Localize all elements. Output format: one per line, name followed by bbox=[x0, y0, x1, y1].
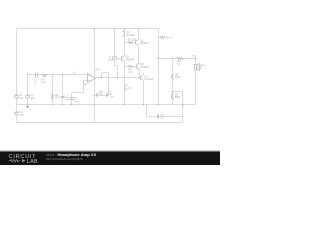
svg-text:10u: 10u bbox=[65, 98, 70, 101]
svg-text:2N3906: 2N3906 bbox=[126, 34, 135, 37]
wire C3 branch bbox=[71, 93, 73, 105]
wire right long vertical bbox=[158, 29, 160, 105]
node dot comp bbox=[93, 95, 94, 96]
svg-text:3906: 3906 bbox=[175, 76, 181, 79]
node dot bias link bbox=[171, 91, 172, 92]
wire output tap bbox=[101, 73, 103, 78]
wire input chain bbox=[28, 74, 88, 76]
wire op-amp output bbox=[96, 77, 141, 79]
svg-text:rev4 : Headphone Amp V3: rev4 : Headphone Amp V3 bbox=[46, 152, 97, 157]
node dot C2 top bbox=[62, 74, 63, 75]
node dot gnd Q7 bbox=[143, 104, 144, 105]
wire I1 top feed bbox=[114, 29, 116, 57]
resistor R9 zigzag bbox=[129, 66, 133, 68]
svg-text:http://circuitlab.com/cpqd7a: http://circuitlab.com/cpqd7a bbox=[46, 157, 83, 161]
logo opamp mark bbox=[22, 159, 25, 163]
V1 plus minus marks bbox=[16, 95, 18, 97]
op-amp OA1 bbox=[88, 74, 96, 83]
svg-text:2N3906: 2N3906 bbox=[140, 66, 149, 69]
capacitor C6 plates bbox=[106, 94, 108, 97]
wire output row bbox=[159, 58, 177, 60]
node dot gnd Vminus bbox=[93, 104, 94, 105]
wire Q2 emitter chain bbox=[138, 46, 140, 64]
node dot I1 rail bbox=[114, 28, 115, 29]
capacitor C1 plates bbox=[35, 73, 37, 78]
wire op-amp V- pin bbox=[94, 80, 96, 123]
wire middle branch bbox=[117, 66, 119, 78]
wire to op-amp minus bbox=[84, 80, 88, 82]
speaker SPK1 bbox=[195, 65, 197, 70]
wire Q3 emitter down bbox=[124, 62, 126, 105]
resistor R5 zigzag bbox=[160, 37, 165, 39]
transistor Q6 bbox=[124, 86, 126, 90]
wire V1 to gnd rail bbox=[16, 99, 18, 112]
wire R4 to out corner bbox=[184, 59, 196, 65]
svg-text:2N3904: 2N3904 bbox=[140, 42, 149, 45]
svg-text:1mA: 1mA bbox=[108, 59, 113, 62]
wire Q7 emitter to rail bbox=[143, 81, 145, 105]
node dot gnd R2 bbox=[52, 104, 53, 105]
resistor R1 zigzag bbox=[42, 75, 48, 77]
wire V3 down to ground rail bbox=[27, 99, 29, 105]
wire feedback horizontal bbox=[72, 92, 84, 94]
svg-text:10p: 10p bbox=[99, 91, 104, 94]
op-amp plus mark bbox=[16, 57, 115, 115]
node dot input bbox=[27, 74, 28, 75]
wire speaker return bbox=[195, 70, 197, 105]
capacitor C2 plates bbox=[61, 96, 65, 98]
wire ground rail bbox=[17, 104, 196, 106]
node dot output tap bbox=[101, 77, 102, 78]
voltage source V3 bbox=[26, 95, 30, 99]
wire Q2 collector bbox=[138, 29, 140, 40]
svg-text:2N3904: 2N3904 bbox=[126, 58, 135, 61]
wire R5 stub bbox=[159, 37, 160, 39]
transistor Q7 bbox=[140, 76, 142, 80]
node dot Q2 rail bbox=[138, 28, 139, 29]
transistor Q1 bbox=[124, 32, 126, 36]
wire compensation top bbox=[102, 72, 109, 74]
wire inverting input drop bbox=[83, 81, 85, 93]
node dot gnd C3 bbox=[71, 104, 72, 105]
wire C4 horizontal bbox=[147, 116, 183, 118]
svg-text:12V: 12V bbox=[19, 114, 24, 117]
transistor Q5 bbox=[136, 65, 138, 69]
voltage source V1 bbox=[15, 95, 19, 99]
node dot gnd C2 bbox=[62, 104, 63, 105]
wire op-amp V+ pin bbox=[94, 29, 96, 77]
svg-text:3904: 3904 bbox=[175, 96, 181, 99]
wire left rail lower bbox=[16, 116, 18, 123]
wire Q5 base feed bbox=[125, 66, 137, 68]
wire V3 up to input node bbox=[27, 75, 29, 95]
node dot bias top bbox=[171, 58, 172, 59]
svg-text:SIN: SIN bbox=[30, 97, 34, 100]
wire Q3 collector chain bbox=[124, 29, 126, 56]
wire Q7 collector stub bbox=[143, 73, 145, 75]
node dot R2 top bbox=[52, 74, 53, 75]
wire bottom rail bbox=[17, 122, 183, 124]
resistor R2 zigzag bbox=[52, 94, 54, 100]
svg-text:100: 100 bbox=[128, 71, 133, 74]
svg-text:12V: 12V bbox=[19, 97, 24, 100]
resistor R4 zigzag bbox=[177, 58, 184, 60]
capacitor C4 plates bbox=[157, 115, 159, 119]
voltage source V2 bbox=[15, 112, 19, 116]
svg-text:LAB: LAB bbox=[27, 159, 38, 165]
svg-text:R3 100: R3 100 bbox=[128, 39, 137, 42]
wire Q5 to output wire bbox=[139, 70, 141, 78]
node dot gnd V3 bbox=[27, 104, 28, 105]
transistor Q2 bbox=[135, 41, 137, 45]
wire left rail upper bbox=[16, 29, 18, 95]
node dot gnd Q6 bbox=[124, 104, 125, 105]
node dot Vplus rail bbox=[93, 28, 94, 29]
transistor Q3 bbox=[121, 57, 123, 61]
node dot out row bbox=[157, 58, 158, 59]
wire C2 branch bbox=[62, 75, 64, 105]
current source I1 bbox=[113, 56, 117, 60]
wire bias vertical bbox=[172, 59, 174, 105]
footer bar bbox=[0, 150, 220, 153]
I1 arrow bbox=[114, 57, 116, 60]
logo resistor squiggle bbox=[9, 159, 21, 162]
wire I1 to Q3 base bbox=[117, 58, 122, 60]
svg-text:OA1: OA1 bbox=[95, 68, 101, 71]
transistor Q8 bbox=[171, 75, 173, 79]
wire right drop bbox=[182, 92, 184, 123]
resistor R3 zigzag bbox=[129, 42, 133, 44]
node dot out corner bbox=[195, 58, 196, 59]
wire C4 branch vertical bbox=[146, 105, 148, 117]
capacitor C5 plates bbox=[96, 94, 98, 97]
svg-text:R5 10: R5 10 bbox=[166, 37, 173, 40]
svg-text:2N3906: 2N3906 bbox=[144, 78, 153, 81]
wire R3 horizontal bbox=[125, 42, 136, 44]
node dot Q1 rail bbox=[124, 28, 125, 29]
node dot mid branch bbox=[117, 77, 118, 78]
wire emitter link bbox=[173, 91, 183, 93]
wire compensation horizontal bbox=[95, 95, 109, 97]
wire I1 bottom corner bbox=[115, 61, 118, 66]
node dot speaker rail bbox=[182, 104, 183, 105]
svg-text:out: out bbox=[193, 54, 197, 57]
node dot Q5 emitter bbox=[139, 77, 140, 78]
wire top rail bbox=[17, 28, 159, 30]
node dot gnd right bbox=[157, 104, 158, 105]
capacitor C3 plates bbox=[70, 97, 75, 99]
ground symbol bbox=[26, 106, 29, 109]
wire compensation vertical bbox=[108, 73, 110, 96]
transistor Q9 bbox=[171, 95, 173, 99]
wire R2 branch bbox=[52, 75, 54, 105]
